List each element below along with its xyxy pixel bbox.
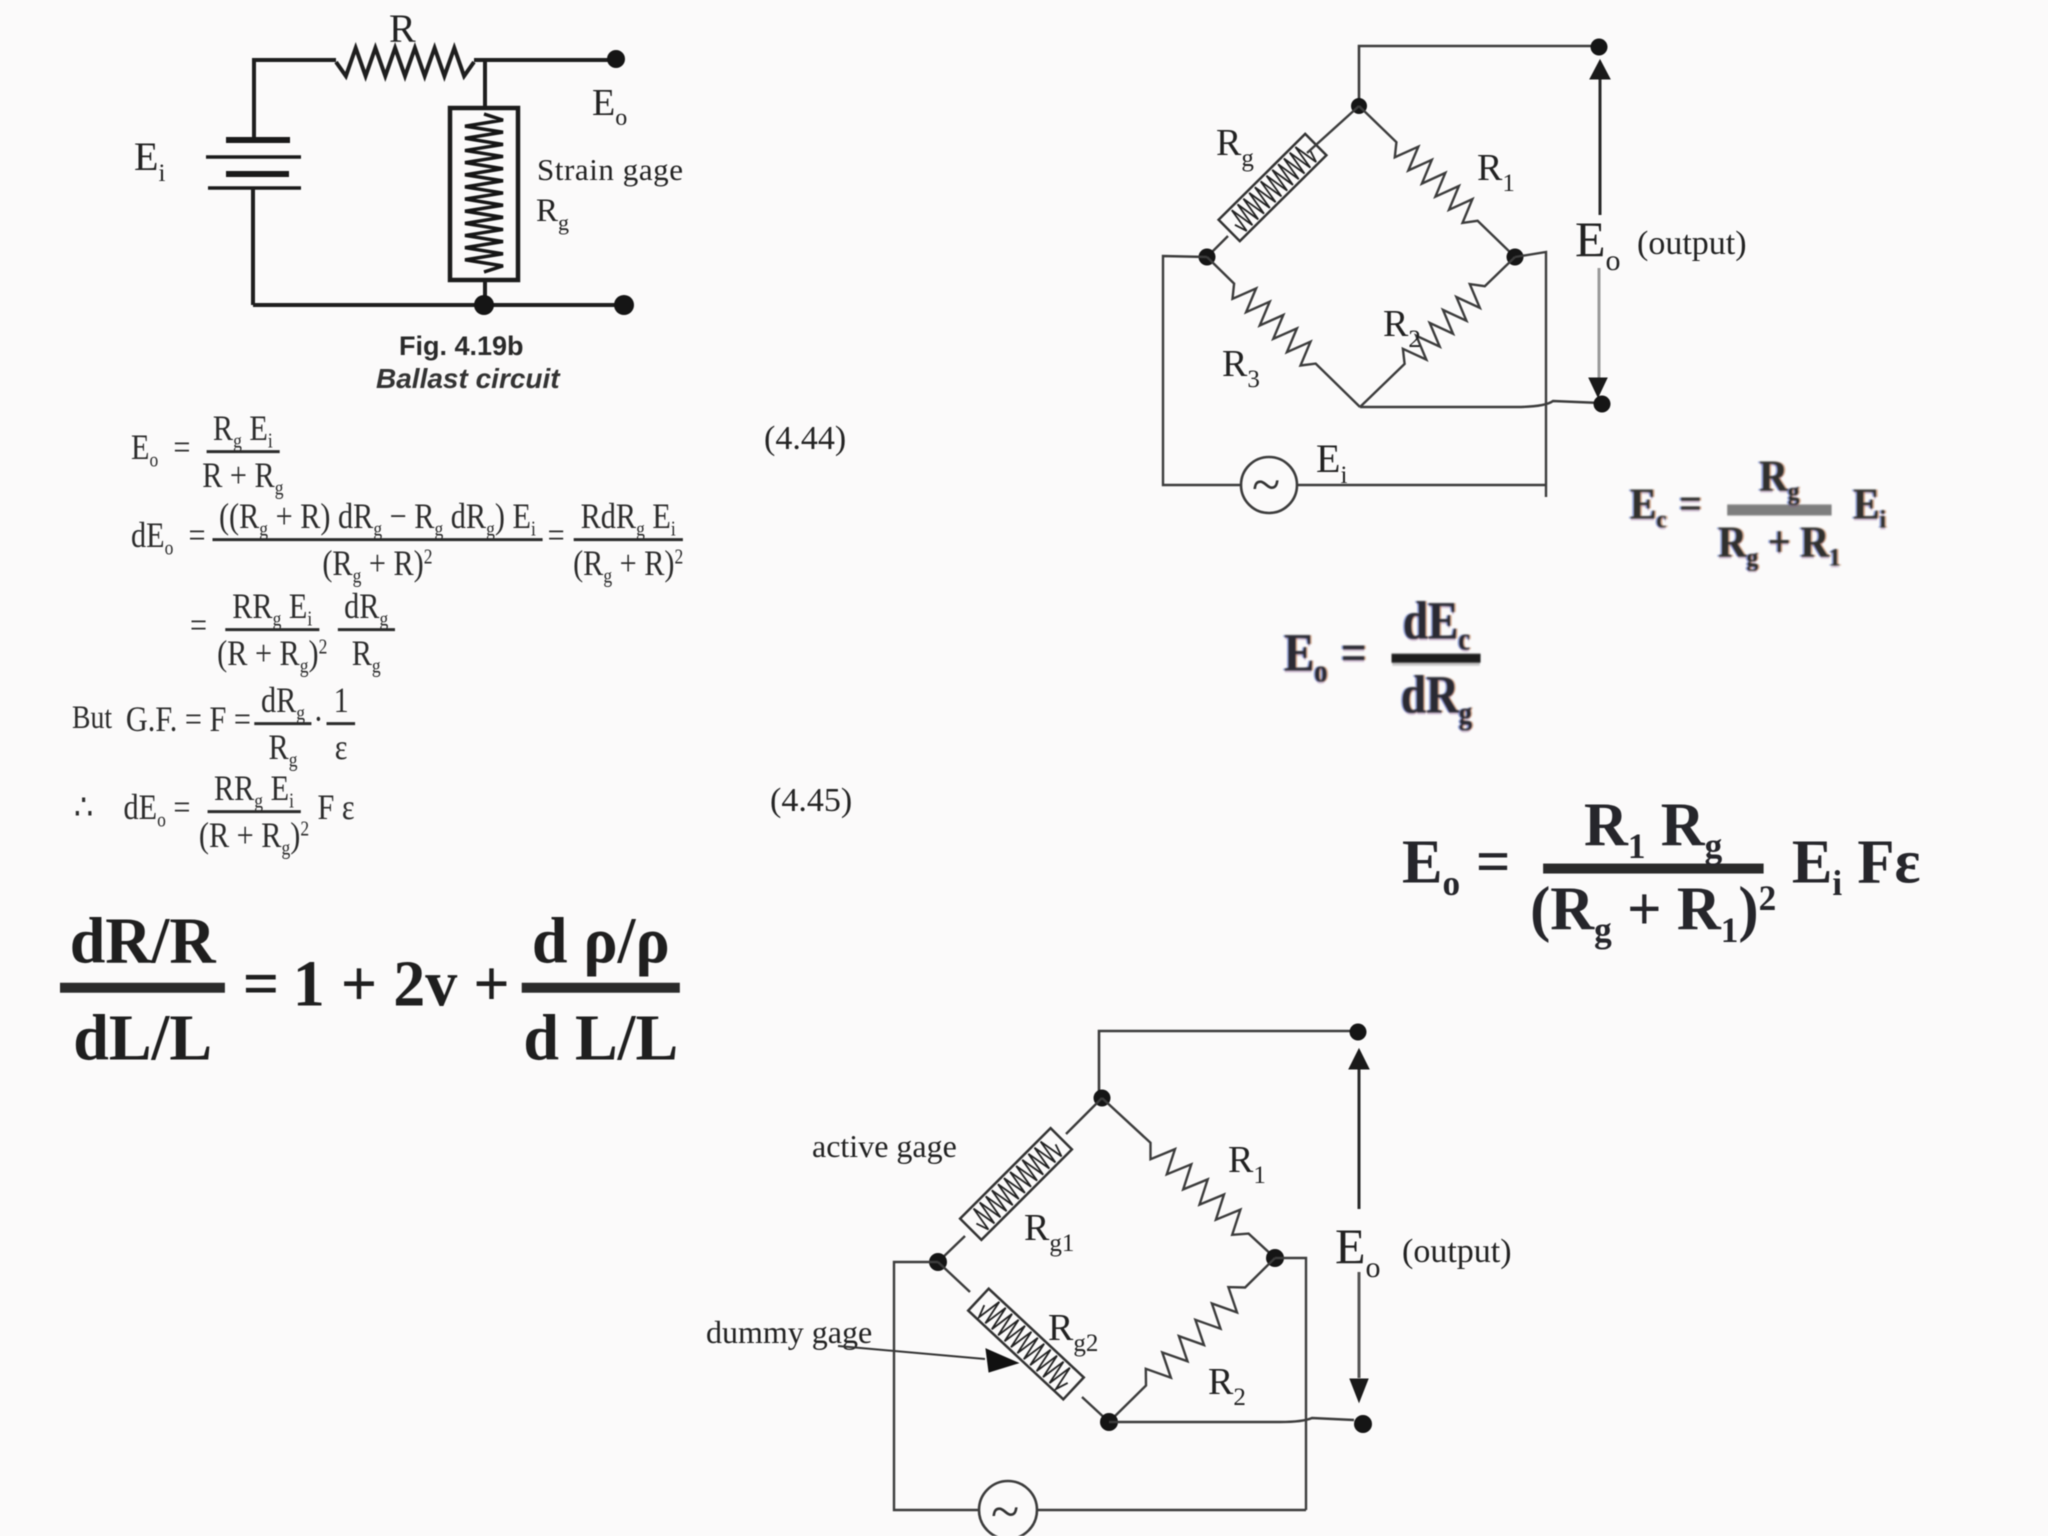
resistor R3 (bridge arm) [1207, 257, 1360, 407]
wire: leads of Rg1 [938, 1098, 1102, 1262]
equation But G.F. = F = dRg/Rg . 1/e [72, 681, 360, 767]
wire: bridge bottom node to output terminal bottom [1109, 1418, 1354, 1422]
svg-text:dummy gage: dummy gage [706, 1314, 872, 1350]
equation Eo = R1Rg/(Rg+R1)^2 EiFe [1402, 793, 1920, 944]
wire: battery bottom to bottom rail [251, 188, 255, 305]
wire: left node to source rail [1163, 256, 1241, 485]
wire: top rail to output terminal [1099, 1031, 1357, 1097]
node: strain gage bottom junction [483, 280, 487, 305]
output arrow Eo [1599, 77, 1602, 215]
strain gage Rg spring [465, 114, 503, 272]
svg-text:(output): (output) [1402, 1233, 1512, 1270]
wire: bottom rail [253, 303, 624, 307]
wire: battery top to resistor R [254, 60, 336, 138]
battery Ei plate 4 (long) [208, 186, 301, 189]
strain gage Rg body [450, 108, 518, 280]
resistor R2 (bridge arm) [1360, 257, 1515, 407]
svg-text:R: R [389, 6, 416, 51]
wire: left node to gage [1207, 106, 1359, 257]
wire: leads of Rg2 [938, 1262, 1109, 1422]
node: output terminal top [1350, 1024, 1367, 1041]
wire: junction down to strain gage [483, 60, 487, 108]
strain gage Rg1 active (bridge arm) [960, 1128, 1072, 1240]
equation Ec = Rg/(Rg+R1) Ei [1630, 452, 1886, 565]
strain gage Rg (bridge arm) [1219, 134, 1327, 241]
node: top output terminal [607, 50, 625, 68]
strain gage Rg2 dummy (bridge arm) [968, 1289, 1084, 1400]
equation number (4.45) [770, 782, 852, 820]
battery Ei plate 2 (long) [206, 155, 301, 158]
node: output terminal bottom [1354, 1415, 1372, 1433]
resistor R1 (bridge arm) [1102, 1098, 1275, 1258]
svg-text:Eo: Eo [592, 82, 627, 131]
svg-text:R1: R1 [1477, 147, 1515, 197]
node: output terminal top [1591, 39, 1608, 56]
wire: source rail right segment [1037, 1509, 1306, 1511]
svg-text:Strain gage: Strain gage [537, 152, 683, 187]
equation number (4.44) [764, 420, 846, 458]
wire: resistor R to output node [474, 58, 616, 62]
node: bridge top [1351, 98, 1367, 114]
wire: right node down to source rail [1515, 252, 1546, 497]
svg-text:Rg: Rg [1216, 122, 1254, 172]
pointer arrow to dummy gage [838, 1346, 985, 1359]
svg-text:(output): (output) [1637, 225, 1747, 262]
equation 4.45: dEo = RRgEi/(R+Rg)^2 Fe [74, 769, 355, 855]
svg-text:Ei: Ei [1316, 436, 1347, 489]
node: bridge right [1507, 249, 1524, 266]
output arrow Eo [1358, 1068, 1361, 1209]
resistor R2 (bridge arm) [1109, 1258, 1275, 1422]
svg-text:Rg: Rg [536, 193, 569, 235]
node: bridge right [1266, 1249, 1284, 1267]
node: bottom output terminal [614, 295, 634, 315]
node: bridge top [1094, 1090, 1111, 1107]
svg-text:Rg1: Rg1 [1024, 1207, 1074, 1257]
wire: bridge bottom node to output terminal bottom [1360, 401, 1601, 407]
svg-text:Ei: Ei [134, 134, 165, 187]
svg-text:Eo: Eo [1575, 211, 1621, 277]
AC source Ei [1241, 457, 1297, 513]
battery Ei plate 3 (short) [226, 171, 289, 177]
equation 4.44: Eo = RgEi/(R+Rg) [131, 409, 292, 495]
svg-text:active gage: active gage [812, 1128, 957, 1164]
node: output terminal bottom [1594, 396, 1611, 413]
equation Eo = dEc/dRg [1284, 592, 1486, 725]
resistor R1 (bridge arm) [1359, 106, 1515, 257]
svg-text:R2: R2 [1383, 303, 1421, 353]
big equation dR/R / dL/L = 1 + 2v + (dp/p)/(dL/L) [60, 906, 688, 1075]
svg-text:Ballast circuit: Ballast circuit [376, 363, 561, 394]
svg-text:~: ~ [991, 1484, 1019, 1536]
svg-text:R2: R2 [1208, 1361, 1246, 1411]
svg-text:R1: R1 [1228, 1139, 1266, 1189]
svg-text:R3: R3 [1222, 343, 1260, 393]
AC source [979, 1481, 1037, 1536]
svg-text:~: ~ [1252, 457, 1280, 514]
equation = RRgEi/(R+Rg)^2 dRg/Rg [190, 587, 400, 673]
node: bridge left [929, 1253, 947, 1271]
node: bridge bottom [1100, 1413, 1118, 1431]
node: bridge left [1199, 249, 1216, 266]
wire: source rail right segment [1297, 484, 1546, 486]
resistor R [336, 48, 474, 76]
equation dEo = ((Rg+R)dRg - RgdRg)Ei/(Rg+R)^2 = RdRgEi/(Rg+R)^2 [131, 497, 692, 583]
wire: left node to source rail [894, 1262, 979, 1510]
battery Ei plate 1 (short) [226, 137, 290, 143]
wire: top rail to output terminal [1359, 46, 1599, 106]
wire: right node down to source rail [1275, 1258, 1306, 1510]
svg-text:Fig. 4.19b: Fig. 4.19b [399, 331, 524, 361]
